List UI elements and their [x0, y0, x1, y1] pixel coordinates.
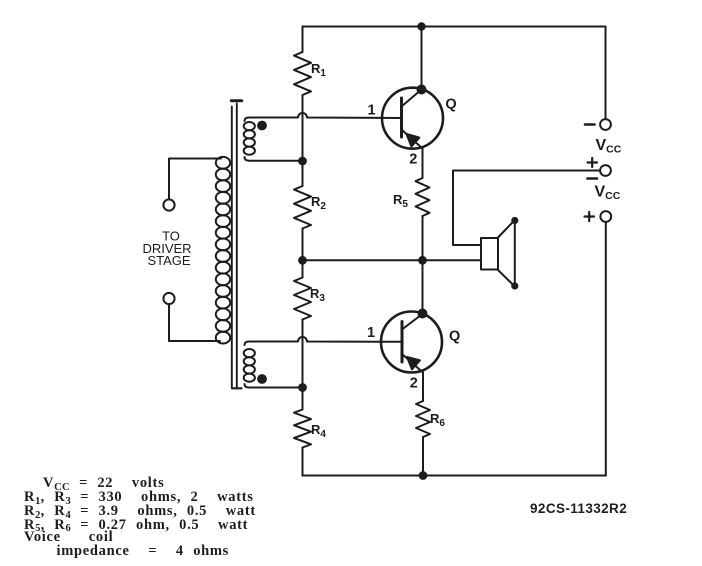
wire: upper secondary bottom to left bus: [245, 157, 303, 161]
minus sign (mid terminal): [588, 177, 598, 180]
wire: lower secondary top to Q2 base (hops left bus): [245, 337, 403, 345]
Q1 emitter segment: [402, 130, 423, 149]
wire: upper secondary top to Q1 base (hops left bus): [245, 113, 402, 121]
phasing dot lower secondary: [258, 375, 266, 383]
wire: left bus R3 to R4: [302, 320, 304, 410]
transistor Q2 circle: [381, 312, 442, 373]
wire: center tap to speaker: [303, 259, 482, 261]
wire: R6 to bottom rail: [422, 437, 424, 476]
wire: left bus R2 to R3: [302, 229, 304, 278]
svg-text:1: 1: [367, 325, 375, 341]
wire: left bus R1 to R2: [302, 95, 304, 186]
wire: bottom terminal to bottom rail: [605, 222, 607, 476]
terminal circle -Vcc: [600, 119, 611, 130]
wire: Q1 collector to top rail: [421, 27, 423, 90]
Q2 emitter segment: [402, 354, 423, 373]
wire: top rail down to -Vcc terminal: [605, 27, 607, 120]
junction dot: lower secondary bottom to left bus: [299, 384, 306, 391]
transformer upper secondary winding: [244, 122, 255, 155]
resistor R5: [416, 178, 430, 216]
wire: driver bottom terminal to primary bottom: [169, 304, 220, 341]
junction dot: upper secondary bottom to left bus: [299, 158, 306, 165]
transformer lower secondary winding: [244, 349, 255, 382]
wire: Q2 emitter to R6: [422, 373, 424, 402]
wire: Q1 emitter to R5: [422, 149, 424, 179]
value list text: [43, 476, 164, 491]
transistor Q1 circle: [382, 88, 443, 149]
Q2 emitter arrow (PNP): [407, 357, 420, 369]
minus sign (top terminal): [585, 123, 595, 126]
transformer T core lines: [232, 104, 237, 389]
wire: lower secondary bottom to left bus: [245, 384, 303, 388]
resistor R3: [294, 278, 311, 320]
Q1 base bar: [400, 98, 403, 137]
svg-text:Q: Q: [449, 329, 460, 345]
terminal circle (driver bottom): [163, 293, 174, 304]
Q1 emitter arrow (PNP): [407, 134, 420, 147]
svg-text:VCC: VCC: [595, 184, 621, 203]
speaker box: [481, 238, 498, 270]
terminal circle (driver top): [163, 199, 174, 210]
Q2 collector junction dot: [419, 310, 427, 318]
svg-text:1: 1: [367, 103, 375, 119]
wire: R5 to center tap node: [422, 216, 424, 260]
resistor R1: [294, 52, 311, 95]
svg-text:R3: R3: [310, 286, 325, 304]
wire: R4 to bottom rail: [302, 448, 304, 476]
resistor R4: [294, 410, 311, 448]
svg-text:R1: R1: [311, 61, 326, 79]
terminal circle +Vcc bottom: [600, 211, 611, 222]
junction dot on top rail (upper collector): [418, 23, 424, 29]
junction dot: center tap node: [299, 257, 306, 264]
wire: output node to Q2 collector: [422, 260, 424, 313]
junction dot: output node: [419, 257, 426, 264]
Q2 collector segment: [402, 314, 423, 330]
svg-text:2: 2: [410, 376, 418, 392]
wire: top rail left drop to R1: [302, 27, 304, 53]
wire: +Vcc mid terminal to speaker top: [453, 171, 600, 246]
resistor R6: [416, 401, 430, 437]
Q1 collector junction dot: [418, 86, 426, 94]
svg-text:2: 2: [409, 152, 417, 168]
svg-text:STAGE: STAGE: [147, 253, 190, 268]
plus sign (mid terminal): [588, 158, 598, 167]
speaker cone corner dots: [512, 218, 517, 223]
resistor R2: [294, 186, 311, 229]
svg-text:R6: R6: [430, 411, 445, 429]
core bottom tick: [232, 387, 242, 389]
label T (crossbar on core top): [231, 99, 241, 102]
terminal circle mid Vcc: [600, 165, 611, 176]
phasing dot upper secondary: [258, 122, 266, 130]
wire: primary top to driver terminal: [169, 159, 221, 200]
Q1 collector segment: [402, 90, 422, 107]
svg-text:VCC: VCC: [596, 137, 622, 156]
svg-text:R4: R4: [311, 422, 326, 440]
svg-text:Q: Q: [445, 97, 456, 113]
transformer primary winding: [216, 157, 230, 344]
bottom rail: [303, 475, 606, 477]
svg-text:R5: R5: [393, 192, 408, 210]
Q2 base bar: [401, 322, 404, 363]
plus sign (bottom terminal): [585, 212, 595, 221]
junction dot on bottom rail (R6): [420, 472, 427, 479]
drawing number 92CS-11332R2: [530, 502, 627, 516]
svg-text:R2: R2: [311, 194, 326, 212]
speaker cone: [498, 220, 515, 287]
top rail: [303, 26, 606, 28]
